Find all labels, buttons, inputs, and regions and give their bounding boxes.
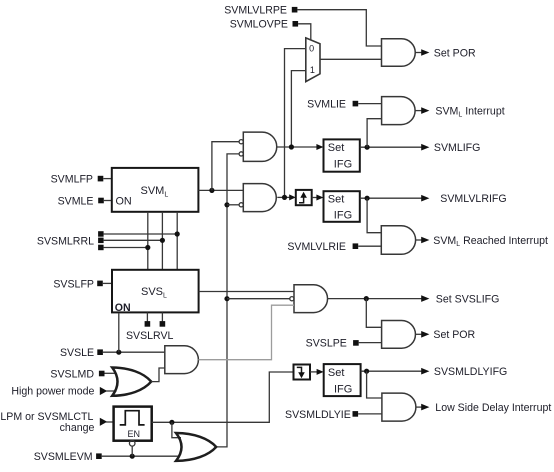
svg-text:Low Side Delay Interrupt: Low Side Delay Interrupt: [435, 402, 551, 414]
node arrow into rising edge detector: [289, 194, 296, 200]
svg-text:Set POR: Set POR: [433, 329, 475, 341]
svg-text:EN: EN: [127, 429, 140, 439]
wire Set IFG3 output to SVSMLDLYIFG arrow: [361, 370, 423, 372]
wire EN branch down to OR U9 top input: [172, 422, 181, 437]
block Set IFG3 (SVSMLDLYIFG flag): [324, 364, 361, 396]
svg-text:SVMLOVPE: SVMLOVPE: [230, 19, 288, 31]
wire SVSMLEVM to OR U9 bottom input: [102, 455, 179, 457]
wire U11 output to AND U10 bottom input: [151, 368, 165, 382]
op-amp U3 AND gate SVML interrupt: [382, 97, 416, 125]
svg-text:Set: Set: [328, 142, 345, 154]
node SVMLVLRPE input terminal: [224, 5, 297, 17]
svg-text:SVMLIE: SVMLIE: [307, 99, 346, 111]
node arrow into Set IFG3: [317, 369, 324, 375]
wire SVSMLRRL bit to right bus line: [104, 233, 178, 235]
node SVMLFP input terminal: [51, 174, 104, 186]
block Set IFG2 (SVMLVLRIFG flag): [324, 191, 360, 222]
wire U5 output to Set IFG1: [277, 146, 318, 148]
wire LPM change to EN pulse block: [106, 421, 114, 423]
node SVMLIE input terminal: [307, 99, 358, 111]
wire U7 out branch down to AND U8 top input: [366, 299, 381, 328]
node SVSLPE input terminal: [306, 338, 359, 350]
node junction IFG3 out: [364, 369, 369, 374]
wire SVSMLEVM branch up to EN bubble: [131, 446, 133, 456]
node SVMLE input terminal: [58, 195, 104, 207]
svg-text:High power mode: High power mode: [11, 386, 94, 398]
node arrow into Set IFG1: [316, 144, 323, 150]
svg-text:Set SVSLIFG: Set SVSLIFG: [436, 293, 500, 305]
node SVMLOVPE input terminal: [230, 19, 298, 31]
wire U6 output to rising edge detector: [277, 196, 290, 198]
wire EN output to falling edge detector: [152, 372, 294, 422]
node Set POR output arrow: [421, 47, 476, 59]
wire U12 output: [416, 406, 423, 408]
svg-text:SVSL: SVSL: [141, 286, 167, 300]
wire SVSLE to AND U10 top input: [103, 351, 165, 353]
node junction RRL right: [175, 231, 180, 236]
wire Set IFG1 output to SVMLIFG arrow: [360, 146, 423, 148]
op-amp U7 AND gate 3-input (Set SVSLIFG): [290, 285, 328, 313]
wire SVMLOVPE to mux select-0 top entry: [298, 24, 311, 41]
node junction mux1 tap on U5 output: [289, 144, 294, 149]
wire bus line 2 between SVML and SVSL blocks: [161, 212, 163, 270]
node arrow into Set IFG2: [316, 195, 323, 201]
op-amp U2 AND gate Set POR (top): [382, 39, 416, 67]
wire SVMLVLRIE to AND U4 bottom input: [358, 245, 381, 247]
wire mux input 1 from NAND U5 output: [291, 71, 305, 147]
wire rising edge detector to Set IFG2: [312, 197, 318, 199]
wire IFG1 out branch up to AND U3 bottom input: [367, 119, 382, 148]
wire SVML output to NAND U6 top input: [198, 189, 243, 191]
wire event line branch to U6 bubble: [227, 204, 239, 206]
node SVML Interrupt output arrow: [421, 105, 505, 118]
op-amp U4 AND gate SVML reached interrupt: [381, 226, 415, 255]
block falling edge detector: [294, 365, 311, 380]
wire gray U10 output to U7 third input: [198, 305, 294, 360]
node LPM or SVSMLCTL change input arrow: [0, 411, 107, 434]
svg-text:SVSMLRRL: SVSMLRRL: [37, 235, 94, 247]
wire SVMLVLRPE to AND U2 top input: [297, 10, 381, 46]
op-amp U5 NAND gate (SVMLIFG source) with inverted inputs: [239, 132, 277, 161]
svg-text:SVML: SVML: [141, 185, 169, 199]
svg-text:1: 1: [310, 65, 315, 75]
node junction RRL middle: [160, 238, 165, 243]
wire SVSMLDLYIE to AND U12 bottom input: [358, 413, 382, 415]
node SVSLFP input terminal: [53, 278, 102, 290]
wire U3 output: [415, 110, 423, 112]
node junction event line to U6 bubble: [224, 202, 229, 207]
node junction IFG2 out: [365, 196, 370, 201]
svg-text:Set POR: Set POR: [434, 47, 476, 59]
wire SVSLFP to SVSL block: [103, 282, 112, 284]
node SVML Reached Interrupt output arrow: [421, 235, 548, 248]
wire SVSMLRRL bit to middle bus line: [104, 239, 163, 241]
op-amp U10 AND gate (SVSLE qualifier): [165, 346, 199, 374]
block Set IFG1 (SVMLIFG flag): [324, 139, 360, 171]
wire Set IFG2 output to SVMLVLRIFG arrow: [360, 197, 423, 199]
wire bus line 1 between SVML and SVSL blocks: [147, 212, 149, 270]
op-amp U8 AND gate Set POR (lower): [382, 321, 416, 349]
node Set SVSLIFG output arrow: [421, 293, 499, 305]
svg-text:Set: Set: [328, 194, 345, 206]
wire SVSL output to AND U7 top input: [199, 291, 294, 293]
op-amp U11 OR gate (SVSLMD / high power): [112, 368, 151, 396]
wire SVMLFP to SVML block: [103, 178, 112, 180]
wire SVSLMD to OR U11 top input: [105, 372, 117, 374]
svg-text:ON: ON: [115, 302, 131, 314]
svg-text:SVMLVLRPE: SVMLVLRPE: [224, 5, 287, 17]
wire mux input 0 from NAND U6 output: [285, 49, 306, 198]
block EN pulse generator: [114, 407, 152, 441]
svg-text:ON: ON: [116, 196, 132, 208]
node junction IFG1 out: [365, 145, 370, 150]
node lower Set POR output arrow: [421, 329, 475, 341]
svg-text:SVML Interrupt: SVML Interrupt: [435, 105, 504, 118]
node SVSMLDLYIE input terminal: [285, 409, 358, 421]
block SVML comparator: [112, 168, 199, 212]
node Low Side Delay Interrupt output arrow: [421, 402, 551, 414]
wire event line from OR U9 output up to bubbles of U5 U6 U7: [216, 154, 239, 447]
block rising edge detector: [296, 190, 312, 205]
svg-text:SVML Reached Interrupt: SVML Reached Interrupt: [433, 235, 548, 248]
node SVMLIFG output arrow: [421, 142, 480, 154]
svg-text:SVSLRVL: SVSLRVL: [126, 330, 174, 342]
node junction SVSMLEVM branch: [130, 454, 135, 459]
op-amp U12 AND gate low side delay interrupt: [382, 393, 416, 421]
svg-text:SVMLE: SVMLE: [58, 195, 94, 207]
svg-text:Set: Set: [328, 367, 345, 379]
svg-text:SVSMLEVM: SVSMLEVM: [34, 451, 93, 463]
wire SVSMLRRL bit to left bus line: [104, 247, 148, 249]
svg-text:SVSLMD: SVSLMD: [50, 368, 94, 380]
node SVSMLDLYIFG output arrow: [421, 366, 507, 378]
node junction SVML output branch: [209, 188, 214, 193]
svg-text:SVSMLDLYIE: SVSMLDLYIE: [285, 409, 351, 421]
node SVMLVLRIE input terminal: [287, 241, 358, 253]
svg-text:change: change: [60, 422, 95, 434]
wire U7 output to Set SVSLIFG arrow: [328, 298, 423, 300]
wire SVMLIE to AND U3 top input: [358, 103, 381, 105]
op-amp U6 NAND gate (SVMLVLR source): [239, 184, 276, 212]
node EN enable bubble: [129, 441, 135, 447]
node junction RRL left: [145, 245, 150, 250]
node junction mux0 tap on U6 output: [282, 195, 287, 200]
svg-text:SVMLFP: SVMLFP: [51, 174, 93, 186]
wire event line branch to U7 bubble: [227, 298, 290, 300]
mux U1 (2:1 select): [306, 38, 320, 82]
node SVSMLEVM input terminal: [34, 451, 102, 463]
node SVMLVLRIFG output arrow: [421, 193, 506, 205]
wire SVML output branch up to NAND U5 top bubble: [212, 142, 239, 191]
node junction SVSLE branch: [116, 350, 121, 355]
node junction event line to U7 bubble: [224, 296, 229, 301]
block SVSL comparator: [112, 270, 199, 314]
wire IFG3 out branch down to AND U12 top input: [367, 371, 382, 398]
wire mux output to AND U2 bottom input: [320, 58, 382, 60]
node SVSLMD input terminal: [50, 368, 104, 380]
node SVSLE input terminal: [60, 347, 103, 359]
wire bus line 3 between SVML and SVSL blocks: [176, 212, 178, 270]
node SVSMLRRL input terminals: [37, 231, 104, 250]
wire High power mode to OR U11 bottom input: [106, 390, 117, 392]
wire SVSLPE to AND U8 bottom input: [359, 342, 382, 344]
wire falling edge detector to Set IFG3: [310, 371, 318, 373]
svg-text:SVSLPE: SVSLPE: [306, 338, 347, 350]
wire IFG2 out branch down to AND U4 top input: [367, 198, 381, 233]
svg-text:SVMLVLRIFG: SVMLVLRIFG: [440, 193, 506, 205]
svg-text:SVSLFP: SVSLFP: [53, 278, 94, 290]
wire SVSLE branch up to SVSL ON pin: [118, 313, 120, 352]
svg-text:SVSMLDLYIFG: SVSMLDLYIFG: [434, 366, 507, 378]
svg-text:SVSLE: SVSLE: [60, 347, 94, 359]
svg-text:SVMLVLRIE: SVMLVLRIE: [287, 241, 346, 253]
svg-text:IFG: IFG: [334, 383, 352, 395]
node junction U7 out: [364, 296, 369, 301]
node High power mode input arrow: [11, 386, 107, 398]
svg-text:IFG: IFG: [334, 210, 352, 222]
svg-text:IFG: IFG: [334, 158, 352, 170]
op-amp U9 OR gate (event combine): [176, 433, 216, 461]
svg-text:SVMLIFG: SVMLIFG: [434, 142, 481, 154]
wire U4 output: [416, 239, 423, 241]
wire U8 output: [415, 333, 422, 335]
svg-text:0: 0: [309, 43, 314, 53]
wire SVMLE to SVML block ON pin: [104, 200, 112, 202]
wire U2 output: [415, 52, 423, 54]
node junction EN output branch: [169, 420, 174, 425]
node SVSLRVL terminals below SVSL block: [126, 312, 174, 341]
